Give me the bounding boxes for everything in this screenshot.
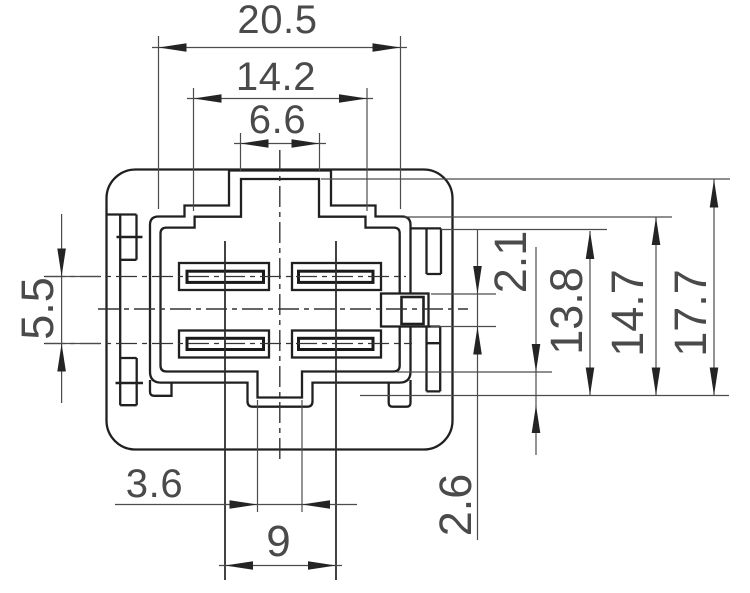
pin slot 4 (bottom-right) outer [292,331,381,358]
dimension 5.5 (left) [45,214,100,403]
pin centre vertical left [225,241,336,580]
pin slot 2 (top-right) outer [292,263,381,290]
dimension 13.8 (right) [441,230,607,396]
svg-text:13.8: 13.8 [541,267,592,355]
svg-text:6.6: 6.6 [249,98,306,142]
svg-text:2.1: 2.1 [485,231,536,294]
left retaining tab lower [120,358,137,405]
row 1 centreline [44,276,406,278]
connector body outline [107,170,453,450]
svg-text:9: 9 [266,517,290,566]
svg-text:17.7: 17.7 [665,269,716,357]
dimension 9 (bottom) [219,565,342,567]
dimension 14.7 (right) [404,217,672,396]
vertical centreline [44,150,468,461]
svg-text:3.6: 3.6 [126,462,183,506]
row 2 centreline [44,343,412,345]
left retaining tab upper [108,215,144,406]
pin slot inner blades [187,271,373,349]
dimension 20.5 [152,36,407,209]
svg-text:14.2: 14.2 [236,55,316,99]
dimension 6.6 [234,133,326,171]
horizontal centreline [98,308,468,310]
svg-text:2.6: 2.6 [430,474,481,537]
right retaining tab lower [427,327,441,392]
dimension 2.6 (right, latch square) [431,229,496,540]
shared bottom reference line [360,395,729,397]
svg-text:20.5: 20.5 [237,0,317,42]
dimension 14.2 [187,88,373,211]
housing outer stepped profile [150,171,411,407]
pin slot 1 (top-left) outer [179,263,381,358]
housing inner stepped profile [161,179,400,398]
pin slot 3 (bottom-left) outer [179,331,269,358]
dimension 2.1 (right, notch depth) [397,247,552,455]
pin centre vertical right [335,241,337,580]
dimension 3.6 (bottom) [115,400,357,512]
right latch square [381,294,429,327]
svg-text:5.5: 5.5 [12,277,63,340]
svg-text:14.7: 14.7 [602,269,653,357]
right retaining tab upper [381,228,441,391]
dimension 17.7 (right) [321,179,730,396]
